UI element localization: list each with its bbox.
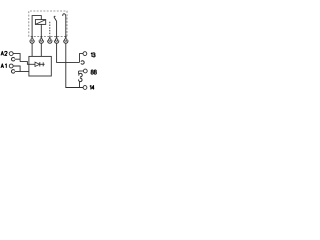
relay coil K1 <box>35 20 45 25</box>
pin A socket <box>30 39 35 44</box>
circle terminal 14 <box>83 86 87 90</box>
wire and circle terminal 13 <box>80 52 87 63</box>
label 14 <box>90 86 94 90</box>
wire coil loop top <box>32 16 41 37</box>
pin E plug arrow <box>65 37 67 39</box>
terminal 14 clamp hook <box>79 82 81 88</box>
diode D1 <box>29 62 45 66</box>
terminal A2 clamp hook <box>11 57 14 61</box>
label A2 <box>1 51 7 55</box>
pin E socket <box>64 39 69 44</box>
wire pin B to input box <box>40 43 42 56</box>
terminal A1 clamp hook <box>11 70 14 74</box>
wire A2 junction to box <box>15 59 29 64</box>
wire pin D to terminal 13 <box>57 43 80 62</box>
terminal BB clamp hook <box>78 73 83 78</box>
pin C socket <box>48 39 53 44</box>
terminal A2 screw circle <box>9 52 13 56</box>
label 88 <box>91 70 96 74</box>
terminal BB stub and circle <box>79 69 88 74</box>
pin C plug arrow <box>49 37 51 39</box>
pin B plug arrow <box>40 37 42 39</box>
relay module dashed outline <box>29 11 67 37</box>
relay contact fixed pole <box>63 14 66 37</box>
wire pin E to terminal 14 <box>66 43 83 87</box>
terminal 13 clamp hook <box>81 61 84 65</box>
pin A plug arrow <box>31 37 33 39</box>
pin D plug arrow <box>55 37 57 39</box>
wire pin A to input box <box>31 43 33 56</box>
label 13 <box>91 53 95 57</box>
pin B socket <box>39 39 44 44</box>
pin D socket <box>54 39 59 44</box>
input circuit box <box>29 56 51 76</box>
wire A2 circle to junction <box>13 54 20 62</box>
wire A1 junction to box <box>15 71 29 73</box>
mechanical link dashed to pin C <box>49 22 51 36</box>
terminal A1 screw circle <box>9 64 13 68</box>
relay contact movable pole <box>54 16 57 37</box>
label A1 <box>1 64 6 68</box>
wire coil bottom <box>40 24 42 37</box>
wire A1 circle to junction <box>13 66 20 72</box>
